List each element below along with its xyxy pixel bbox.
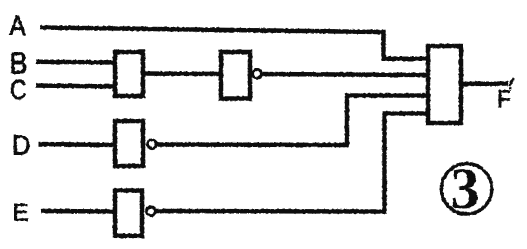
gate U2 (inverter after U1) <box>221 52 250 99</box>
gate U4 (E input inverter) <box>115 191 142 236</box>
wire C (input C to gate U1) <box>36 86 116 87</box>
wire U3 bubble output up to final gate <box>154 96 430 146</box>
prime tick after output wire <box>510 79 514 86</box>
inversion bubble on U3 output <box>148 140 157 149</box>
svg-text:D: D <box>12 130 31 161</box>
wire D (input D to gate U3) <box>38 144 116 145</box>
wire B (input B to gate U1) <box>36 60 116 65</box>
wire U4 bubble output up to final gate <box>155 114 430 212</box>
wire E (input E to gate U4) <box>41 209 116 214</box>
inversion bubble on U4 output <box>147 207 156 216</box>
inversion bubble on U2 output <box>253 70 262 79</box>
svg-text:F: F <box>497 86 511 113</box>
figure number circle <box>441 164 491 214</box>
svg-text:E: E <box>13 200 29 227</box>
gate U1 (B,C input gate) <box>115 52 143 96</box>
svg-text:3: 3 <box>451 156 480 221</box>
svg-text:A: A <box>10 10 26 41</box>
wire A (input A to final gate, steps down) <box>40 28 430 59</box>
gate U3 (D input inverter) <box>115 121 143 166</box>
wire U1 output to U2 input <box>143 71 222 76</box>
svg-text:C: C <box>10 74 27 105</box>
wire F output from final gate <box>461 81 508 86</box>
gate U5 (final output gate) <box>428 46 461 123</box>
wire U2 bubble output to final gate <box>259 74 430 75</box>
small dot near prime tick <box>509 87 511 89</box>
